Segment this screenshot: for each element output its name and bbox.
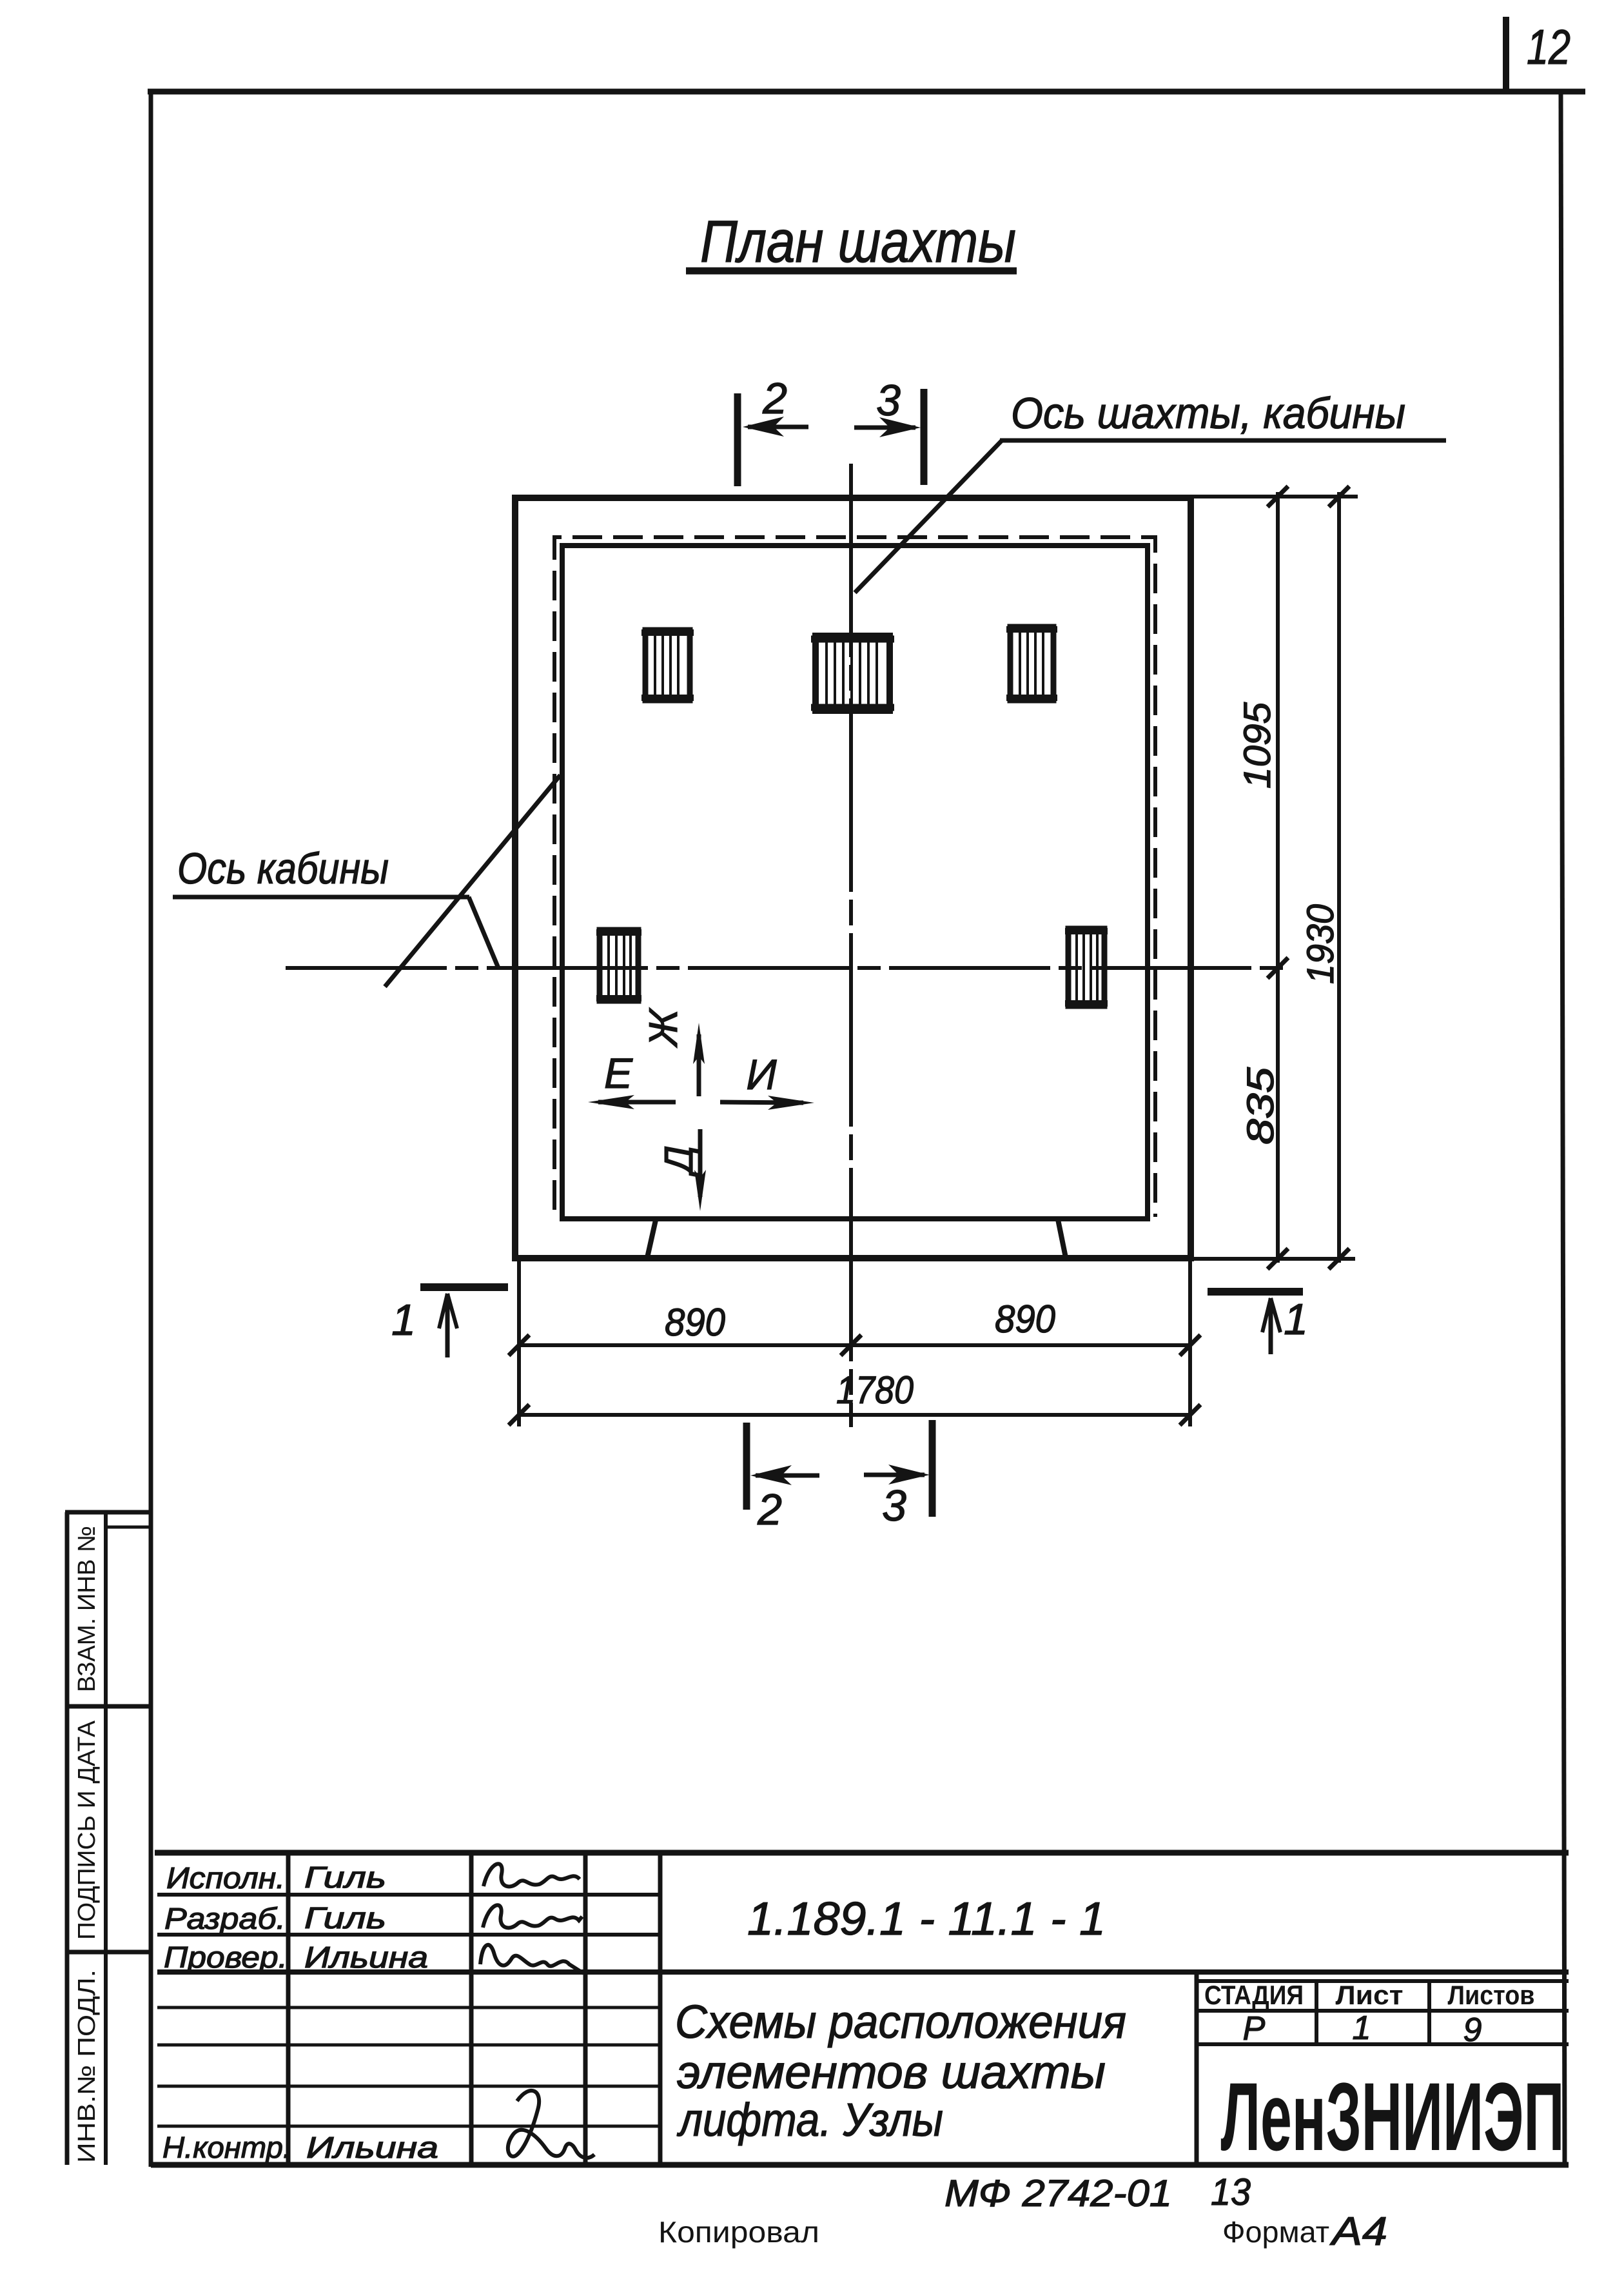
tick dim right 1 (1267, 486, 1288, 507)
side strip top edge (65, 1510, 153, 1515)
title block stage section divider (1195, 1972, 1199, 2165)
section mark 1 right arrow (1269, 1298, 1273, 1354)
svg-text:3: 3 (882, 1481, 906, 1530)
section mark 2 bottom arrow (756, 1474, 819, 1478)
svg-text:Провер.: Провер. (164, 1940, 288, 1974)
svg-text:ИНВ.№ ПОДЛ.: ИНВ.№ ПОДЛ. (73, 1969, 101, 2163)
title block column line a (286, 1853, 291, 2165)
section mark 2 bottom tick (743, 1423, 750, 1510)
svg-text:890: 890 (665, 1301, 725, 1344)
tick dim bottom 4 (509, 1405, 529, 1425)
frame top border (148, 89, 1585, 95)
left extension line bottom (517, 1261, 521, 1426)
svg-text:3: 3 (876, 376, 901, 425)
title block top edge (155, 1850, 1569, 1856)
signature 1 (484, 1864, 580, 1886)
bracket mid-right (1068, 929, 1104, 1006)
svg-text:Д: Д (657, 1145, 701, 1178)
title block column line c (583, 1853, 588, 2165)
svg-text:1.189.1 - 11.1 - 1: 1.189.1 - 11.1 - 1 (747, 1893, 1106, 1945)
tick dim bottom 3 (1180, 1335, 1200, 1356)
door jamb right (1058, 1219, 1066, 1258)
title block main divider (157, 1969, 1569, 1975)
tick dim right 3 (1267, 1248, 1288, 1269)
frame bottom border (151, 2162, 1569, 2168)
title block row line 4 (157, 2006, 660, 2009)
stage column divider 2 (1427, 1981, 1431, 2044)
side strip small cell divider (106, 1526, 153, 1529)
svg-text:лифта. Узлы: лифта. Узлы (676, 2095, 943, 2146)
top extension line right (1192, 495, 1358, 498)
tick dim right 4 (1329, 486, 1349, 507)
cabin dashed outline (554, 537, 1155, 1217)
svg-text:Р: Р (1243, 2010, 1266, 2047)
svg-text:Ось шахты, кабины: Ось шахты, кабины (1011, 389, 1405, 438)
svg-text:1930: 1930 (1300, 904, 1342, 984)
section mark 3 bottom arrow (864, 1473, 925, 1477)
svg-text:Е: Е (604, 1049, 633, 1097)
svg-text:Ильина: Ильина (304, 1940, 428, 1974)
svg-text:Исполн.: Исполн. (166, 1861, 285, 1895)
signature 2 (483, 1905, 582, 1928)
shaft inner wall (562, 546, 1148, 1219)
svg-text:1780: 1780 (836, 1368, 914, 1412)
svg-text:890: 890 (995, 1297, 1055, 1341)
dimension line 1780 (519, 1413, 1190, 1417)
leader axis of cabin long diagonal (385, 775, 560, 987)
svg-text:И: И (746, 1051, 777, 1098)
svg-text:элементов шахты: элементов шахты (677, 2047, 1106, 2098)
svg-text:Гиль: Гиль (304, 1860, 386, 1894)
svg-text:План шахты: План шахты (700, 209, 1016, 275)
dimension line 1095-835 (1276, 492, 1280, 1263)
title block row line 6 (157, 2085, 660, 2088)
stage header top (1197, 1979, 1569, 1983)
leader axis of shaft diagonal (855, 440, 1003, 593)
tick dim bottom 5 (1180, 1405, 1200, 1425)
direction arrow down (698, 1129, 703, 1197)
tick dim right 5 (1329, 1248, 1349, 1269)
svg-text:Формат: Формат (1222, 2215, 1329, 2249)
side strip left edge (65, 1512, 70, 2165)
bracket top-right (1010, 627, 1053, 700)
svg-text:Ильина: Ильина (306, 2131, 438, 2164)
tick dim bottom 2 (841, 1335, 861, 1356)
stage column divider 1 (1315, 1981, 1318, 2044)
section mark 1 right bar (1208, 1288, 1303, 1296)
svg-text:12: 12 (1527, 20, 1570, 75)
frame right border (1561, 92, 1565, 2166)
svg-text:1: 1 (391, 1296, 416, 1345)
title block column line b (469, 1853, 474, 2165)
bracket mid-left (600, 930, 638, 1001)
svg-text:2: 2 (762, 374, 787, 423)
section mark 2 top tick (734, 393, 741, 486)
svg-text:Схемы расположения: Схемы расположения (675, 1997, 1126, 2048)
horizontal axis line (286, 966, 1287, 970)
leader axis of cabin underline (173, 895, 469, 900)
title block column line d (658, 1853, 663, 2165)
svg-text:Разраб.: Разраб. (164, 1902, 286, 1935)
direction arrow right (720, 1102, 803, 1103)
svg-text:Лист: Лист (1336, 1980, 1404, 2010)
svg-text:Копировал: Копировал (658, 2215, 819, 2249)
direction arrow left (598, 1100, 676, 1105)
right extension line bottom (1188, 1261, 1192, 1426)
signature 3 (480, 1945, 583, 1973)
title block row line 5 (157, 2044, 660, 2047)
svg-text:ПОДПИСЬ И ДАТА: ПОДПИСЬ И ДАТА (73, 1720, 101, 1940)
svg-text:2: 2 (757, 1485, 782, 1534)
title block row line 2 (157, 1933, 660, 1937)
dimension line 890-890 (519, 1343, 1190, 1347)
bracket top-left (645, 630, 690, 700)
dimension line 1930 (1337, 492, 1341, 1263)
section mark 3 bottom tick (929, 1420, 936, 1517)
svg-text:13: 13 (1211, 2171, 1251, 2213)
section mark 3 top arrow (854, 426, 915, 430)
svg-text:Гиль: Гиль (304, 1901, 386, 1935)
svg-text:СТАДИЯ: СТАДИЯ (1204, 1980, 1304, 2010)
leader axis of cabin short diagonal (469, 897, 498, 968)
svg-text:Листов: Листов (1448, 1980, 1535, 2010)
section mark 1 left bar (420, 1283, 508, 1291)
svg-text:МФ 2742-01: МФ 2742-01 (944, 2173, 1172, 2215)
svg-text:1: 1 (1284, 1295, 1308, 1344)
vertical axis line (849, 464, 853, 1427)
section mark 1 left arrow (445, 1294, 450, 1357)
frame left border (149, 89, 153, 2167)
side strip divider 2 (65, 1950, 153, 1955)
svg-text:9: 9 (1463, 2011, 1482, 2049)
section mark 3 top tick (921, 389, 928, 485)
stage header bottom (1197, 2009, 1569, 2013)
svg-text:Ось кабины: Ось кабины (177, 844, 389, 893)
svg-text:ЛенЗНИИЭП: ЛенЗНИИЭП (1221, 2062, 1565, 2171)
page number tick (1503, 17, 1509, 94)
bottom extension line right (1192, 1257, 1355, 1261)
svg-text:1: 1 (1353, 2009, 1371, 2047)
signature 4 (508, 2091, 594, 2158)
title block row line 7 (157, 2125, 660, 2128)
door jamb left (647, 1220, 656, 1258)
svg-text:Ж: Ж (641, 1007, 686, 1048)
svg-text:Н.контр.: Н.контр. (162, 2131, 291, 2164)
side strip column divider (104, 1512, 108, 2165)
svg-text:1095: 1095 (1237, 702, 1278, 789)
tick dim bottom 1 (509, 1335, 529, 1356)
section mark 2 top arrow (748, 425, 808, 429)
direction arrow up (697, 1034, 701, 1096)
title block row line 1 (157, 1893, 660, 1897)
shaft outer wall (515, 498, 1191, 1258)
svg-text:ВЗАМ. ИНВ №: ВЗАМ. ИНВ № (73, 1526, 101, 1692)
bracket top-center (816, 636, 890, 711)
svg-text:А4: А4 (1329, 2209, 1387, 2254)
stage values bottom (1197, 2042, 1569, 2046)
tick dim right 2 (1267, 958, 1288, 978)
side strip divider 1 (65, 1704, 153, 1709)
drawing title underline (686, 268, 1017, 275)
leader axis of shaft underline (1000, 439, 1446, 443)
svg-text:835: 835 (1240, 1067, 1282, 1145)
